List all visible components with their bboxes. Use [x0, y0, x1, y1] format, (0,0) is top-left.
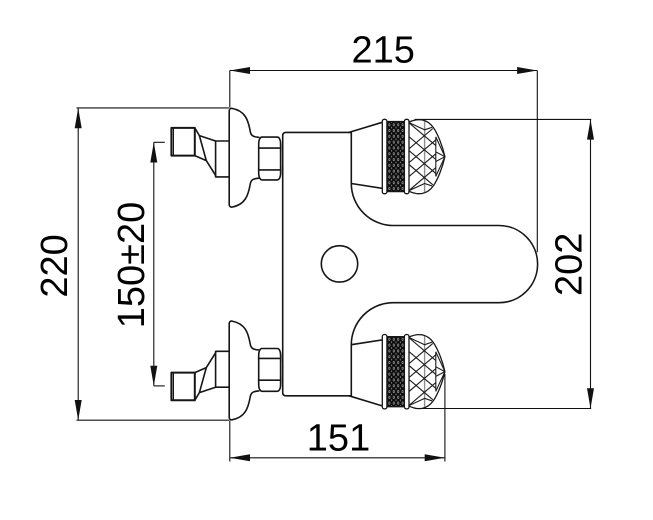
shallow facets near rim — [409, 337, 435, 406]
facet diagonals down-left — [409, 128, 436, 191]
dome outline — [409, 120, 445, 194]
top hex nut — [259, 137, 281, 180]
bottom eccentric connector: angled cone — [195, 353, 216, 401]
top handle crystal dome — [409, 118, 445, 195]
facet diagonals down-right — [409, 337, 436, 400]
facet vertical edge — [435, 137, 437, 177]
bottom hex nut — [259, 349, 281, 392]
dim 202 right — [590, 119, 592, 408]
facet vertical edge — [435, 352, 437, 392]
bottom eccentric connector: cylinder at flange — [216, 351, 230, 387]
bottom handle crystal dome — [409, 333, 445, 410]
tip fan — [436, 137, 445, 177]
shallow facets near rim — [409, 122, 435, 190]
facet diagonals down-left — [409, 342, 436, 405]
ext line 220 top — [77, 107, 230, 109]
facet vertical gray — [424, 118, 426, 195]
bottom handle stem cone — [349, 396, 382, 406]
tick 150±20 bottom — [154, 385, 165, 387]
svg-text:220: 220 — [34, 234, 76, 297]
top wall flange (escutcheon bell) — [229, 108, 259, 207]
top handle stem cone — [349, 122, 382, 132]
top handle knurled ring — [382, 119, 409, 193]
bottom wall flange (escutcheon bell) — [229, 321, 259, 420]
dimension lines — [75, 67, 594, 462]
ext line 151 left — [229, 420, 231, 461]
bottom handle knurled ring — [382, 335, 409, 409]
dim 215 top — [230, 70, 538, 72]
dim 151 bottom — [230, 457, 445, 459]
svg-text:150±20: 150±20 — [111, 202, 153, 329]
svg-text:202: 202 — [549, 233, 591, 296]
top eccentric connector: wall square fitting — [171, 128, 194, 156]
svg-text:151: 151 — [307, 417, 370, 459]
facet vertical gray — [424, 333, 426, 410]
diverter circle on body — [321, 246, 357, 282]
svg-text:215: 215 — [351, 30, 414, 72]
bottom eccentric connector: wall square fitting — [171, 373, 194, 401]
ext line 202 bottom — [415, 408, 592, 410]
faucet body slab — [283, 132, 352, 395]
facet diagonals down-right — [409, 122, 436, 185]
tick 150±20 top — [154, 141, 165, 143]
top eccentric connector: angled cone — [195, 128, 216, 175]
tip fan — [436, 352, 445, 392]
body U-shaped cutout outline — [351, 184, 537, 345]
top eccentric connector: cylinder at flange — [216, 141, 230, 177]
ext line 215 right — [536, 71, 538, 253]
dim 150±20 inner — [153, 142, 155, 386]
dim 220 left — [77, 108, 79, 420]
ext line 151 right — [444, 374, 446, 462]
dome outline — [409, 335, 445, 409]
ext line 220 bottom — [77, 419, 230, 421]
ext line 215 left — [229, 71, 231, 108]
ext line 202 top — [415, 118, 592, 120]
